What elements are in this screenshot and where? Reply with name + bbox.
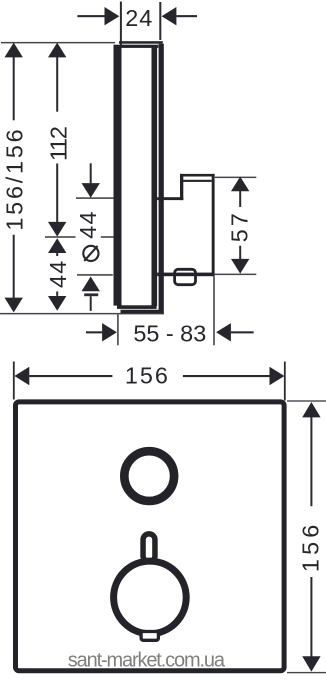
svg-text:44: 44 [45, 260, 71, 288]
svg-text:112: 112 [45, 127, 71, 161]
svg-text:156: 156 [125, 362, 170, 388]
svg-text:44: 44 [75, 210, 101, 238]
svg-text:156/156: 156/156 [2, 127, 28, 231]
svg-text:sant-market.com.ua: sant-market.com.ua [68, 649, 226, 671]
svg-text:57: 57 [227, 210, 253, 242]
svg-text:156: 156 [298, 520, 324, 572]
svg-text:24: 24 [125, 5, 153, 31]
svg-text:55 - 83: 55 - 83 [133, 320, 206, 346]
